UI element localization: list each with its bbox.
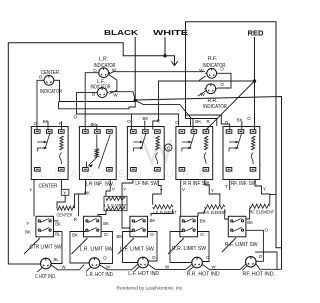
- switch L.R. LIMIT SW: [84, 216, 102, 237]
- wire lf ind left: [77, 93, 132, 130]
- wire rf element left to rf limit: [246, 208, 250, 219]
- heater R.F. ELEMENT: [250, 204, 270, 208]
- svg-text:CTR LIMIT SW: CTR LIMIT SW: [30, 245, 62, 251]
- wire bus A: [135, 97, 281, 270]
- svg-text:R: R: [59, 121, 62, 126]
- svg-text:T: T: [225, 184, 228, 189]
- svg-text:R.F. LIMIT SW: R.F. LIMIT SW: [225, 242, 258, 248]
- svg-text:L.R. LIMIT SW: L.R. LIMIT SW: [80, 246, 113, 252]
- wire lf element to lf limit: [151, 209, 173, 216]
- svg-text:Rendered by LeadVenture, Inc.: Rendered by LeadVenture, Inc.: [117, 285, 184, 290]
- svg-text:O: O: [247, 116, 251, 121]
- switch RR INF SW: [176, 127, 213, 180]
- switch LF INF SW: [127, 127, 164, 180]
- resistor CENTER ELEMENT: [57, 206, 75, 210]
- wire center box BL to ctr limit: [33, 180, 35, 217]
- svg-text:O: O: [150, 232, 154, 237]
- lamp L.F. HOT IND: [134, 257, 148, 271]
- wire rf box BR to element: [255, 180, 270, 205]
- wire stub RR BK: [192, 119, 194, 130]
- wire rf hot h252 left: [255, 251, 263, 253]
- wire to lr limit tl: [78, 194, 80, 216]
- svg-text:BK: BK: [247, 220, 253, 225]
- svg-text:BK: BK: [200, 219, 206, 224]
- wire center ind right: [55, 80, 135, 101]
- watermark logo: [141, 136, 171, 163]
- wire lf limit left to hot: [123, 232, 138, 263]
- lamp R.F. HOT IND: [242, 257, 256, 271]
- svg-text:BK: BK: [25, 230, 31, 235]
- wire rf ind left diag: [199, 76, 206, 81]
- svg-text:BL: BL: [55, 232, 61, 237]
- wire stub CENTER R: [61, 122, 63, 130]
- lamp L.R. INDICATOR: [97, 68, 110, 78]
- wire rf limit right to hot: [246, 230, 264, 261]
- switch R.F. LIMIT SW: [228, 216, 246, 237]
- svg-text:O: O: [175, 120, 179, 125]
- svg-text:O: O: [127, 119, 131, 124]
- svg-text:INDICATOR: INDICATOR: [40, 89, 62, 95]
- svg-text:BK: BK: [103, 221, 109, 226]
- wire BLACK feed: [134, 37, 136, 100]
- switch RF INF SW: [223, 127, 260, 180]
- wire center element to lr box: [75, 180, 86, 209]
- wire lf limit leader: [118, 238, 134, 254]
- wire lr-lf link: [110, 91, 117, 94]
- wire ctr limit tr stub: [54, 220, 59, 222]
- wire rr limit left to hot: [170, 232, 192, 263]
- switch L.F. LIMIT SW: [130, 216, 148, 237]
- wire neutral bus left border: [8, 43, 165, 264]
- heater L.F. ELEMENT: [153, 205, 173, 209]
- wire rr element right to rf limit: [225, 209, 229, 219]
- svg-text:O: O: [220, 67, 224, 72]
- connector Y: [61, 189, 69, 195]
- wire WHITE feed: [164, 37, 166, 56]
- switch CENTER SURFACE SW: [31, 127, 68, 180]
- wire lr box BR to element: [106, 180, 110, 197]
- svg-text:Y: Y: [263, 187, 266, 192]
- wire center ind left: [37, 80, 43, 130]
- wire stub LF BK: [144, 121, 146, 130]
- svg-text:O: O: [103, 256, 107, 261]
- svg-text:BLACK: BLACK: [104, 28, 139, 37]
- wire lr limit leader: [72, 238, 88, 254]
- wire rr element left to rr limit: [198, 209, 205, 216]
- heater R.R. ELEMENT: [205, 205, 225, 209]
- wire center box BR to Y: [61, 180, 63, 190]
- svg-text:O: O: [200, 232, 204, 237]
- wire right enclosure: [186, 22, 282, 248]
- wire rr limit right to hot: [198, 232, 210, 262]
- svg-text:R.R. ELEMENT: R.R. ELEMENT: [203, 210, 226, 215]
- wire rf box BL stub: [229, 180, 231, 191]
- svg-text:RF. INF. SW.: RF. INF. SW.: [231, 181, 257, 187]
- wire rf element tick: [270, 194, 276, 196]
- wire stub RF BK: [241, 122, 243, 130]
- wire Y to element: [57, 195, 65, 208]
- wire rf limit leader: [222, 238, 236, 252]
- svg-text:O: O: [259, 254, 263, 259]
- wire stub LR BK: [96, 124, 98, 130]
- lamp R.R. HOT IND: [189, 257, 203, 271]
- wire y118: [186, 119, 217, 127]
- svg-text:R: R: [207, 119, 210, 124]
- wire lf box BR to element: [153, 180, 162, 205]
- svg-text:C HOT IND.: C HOT IND.: [35, 274, 56, 280]
- svg-text:Y: Y: [26, 221, 29, 226]
- lamp L.F. INDICATOR: [96, 88, 109, 98]
- svg-text:RF. HOT IND.: RF. HOT IND.: [243, 272, 276, 278]
- wire dot diag to rr bk: [135, 100, 190, 125]
- svg-text:O: O: [93, 68, 97, 73]
- node C: [165, 144, 172, 151]
- wire lr ind down link: [109, 75, 117, 92]
- svg-text:R R INF SW.: R R INF SW.: [183, 181, 210, 187]
- svg-text:R: R: [157, 119, 160, 124]
- svg-text:O: O: [152, 255, 156, 260]
- svg-text:R.R. HOT IND: R.R. HOT IND: [187, 272, 220, 278]
- svg-text:BK: BK: [195, 119, 201, 124]
- node BLACK junction: [134, 99, 137, 102]
- svg-text:O: O: [225, 120, 229, 125]
- wire lr ind right: [109, 72, 205, 74]
- wire rr box BL to rr limit: [180, 180, 182, 217]
- node WHITE junction: [163, 54, 166, 57]
- wire chain c-lr: [51, 265, 84, 270]
- svg-text:L.F. ELEMENT: L.F. ELEMENT: [153, 210, 177, 215]
- svg-text:BK: BK: [143, 116, 149, 121]
- wire rr ind left diag: [198, 91, 206, 97]
- wire y115: [186, 115, 230, 130]
- svg-text:BK: BK: [43, 119, 49, 124]
- wire lr element to lr limit: [98, 211, 106, 217]
- wire red diagonal to RR: [206, 81, 255, 130]
- svg-text:O: O: [34, 121, 38, 126]
- wire RED feed: [254, 37, 256, 130]
- lamp CENTER INDICATOR: [43, 75, 56, 85]
- wire red branch to LF: [153, 81, 255, 130]
- wire y114 to rr o: [131, 114, 178, 126]
- wire lr limit right to hot: [100, 232, 113, 264]
- svg-text:BK: BK: [237, 118, 243, 123]
- svg-text:CENTER: CENTER: [57, 212, 73, 217]
- svg-text:BK: BK: [117, 234, 123, 239]
- svg-text:Y: Y: [63, 190, 66, 195]
- svg-text:O: O: [220, 82, 224, 87]
- wire ctr limit leader: [24, 238, 40, 254]
- svg-text:Y: Y: [211, 188, 214, 193]
- wire chain rr-rf: [202, 264, 245, 269]
- wire stub CENTER BK: [47, 122, 49, 130]
- wire ctr limit right to hot: [51, 232, 62, 264]
- svg-text:BK: BK: [150, 218, 156, 223]
- svg-text:CENTER: CENTER: [39, 183, 58, 189]
- svg-text:RF. ELEMENT: RF. ELEMENT: [250, 209, 275, 214]
- lamp R.F. INDICATOR: [205, 68, 218, 78]
- svg-text:O: O: [206, 255, 210, 260]
- wire lr ind left: [85, 73, 97, 131]
- wire dot jog left: [59, 100, 136, 109]
- lamp C HOT IND: [37, 258, 51, 272]
- svg-text:BK: BK: [84, 191, 90, 196]
- svg-text:Y: Y: [29, 188, 32, 193]
- svg-text:O: O: [74, 115, 78, 120]
- wire rr box BR to element: [205, 180, 220, 205]
- heater L.R. ELEMENT: [104, 196, 127, 210]
- svg-text:L.R. HOT IND.: L.R. HOT IND.: [86, 272, 114, 278]
- wire chain lf-rr: [148, 264, 192, 269]
- svg-text:C: C: [167, 146, 171, 152]
- switch CTR LIMIT SW: [36, 216, 54, 237]
- svg-text:BK: BK: [55, 222, 61, 227]
- switch R.R. LIMIT SW: [180, 216, 198, 237]
- wire lf ind right diag: [109, 92, 135, 101]
- svg-text:BL: BL: [54, 257, 60, 262]
- svg-text:R.R. LIMIT SW: R.R. LIMIT SW: [172, 246, 206, 252]
- svg-text:W: W: [199, 68, 204, 73]
- svg-text:O: O: [265, 228, 269, 233]
- svg-text:WHITE: WHITE: [153, 28, 188, 37]
- wire rf hot up right: [263, 252, 277, 269]
- wire lr limit left to hot: [70, 232, 89, 264]
- lamp R.R. INDICATOR: [204, 84, 217, 94]
- svg-text:O: O: [104, 232, 108, 237]
- wire chain lr-lf: [100, 264, 138, 270]
- wire rr limit leader: [168, 238, 184, 254]
- ground: [165, 56, 178, 66]
- wire rf ind right: [218, 73, 232, 88]
- wire lf box BL to lf limit: [122, 180, 133, 229]
- svg-text:R.R.: R.R.: [208, 98, 218, 104]
- svg-text:O: O: [39, 75, 43, 80]
- node RED junction: [253, 79, 256, 82]
- svg-text:BK: BK: [72, 232, 78, 237]
- svg-text:L.R. ELEMENT: L.R. ELEMENT: [104, 202, 127, 207]
- svg-text:R.F.: R.F.: [208, 56, 217, 62]
- svg-text:L.R.: L.R.: [99, 57, 108, 63]
- svg-text:INDICATOR: INDICATOR: [203, 104, 227, 110]
- switch LR INF SW: [79, 127, 116, 180]
- lamp L.R. HOT IND: [86, 258, 100, 272]
- svg-text:Y: Y: [123, 187, 126, 192]
- wire bus A to RF hot: [256, 264, 281, 269]
- svg-text:RED: RED: [248, 29, 264, 38]
- svg-text:L.F. HOT IND: L.F. HOT IND: [128, 271, 159, 277]
- wire lf limit right to hot: [148, 232, 158, 262]
- svg-text:LF INF. SW: LF INF. SW: [135, 181, 157, 187]
- svg-text:W: W: [113, 93, 118, 98]
